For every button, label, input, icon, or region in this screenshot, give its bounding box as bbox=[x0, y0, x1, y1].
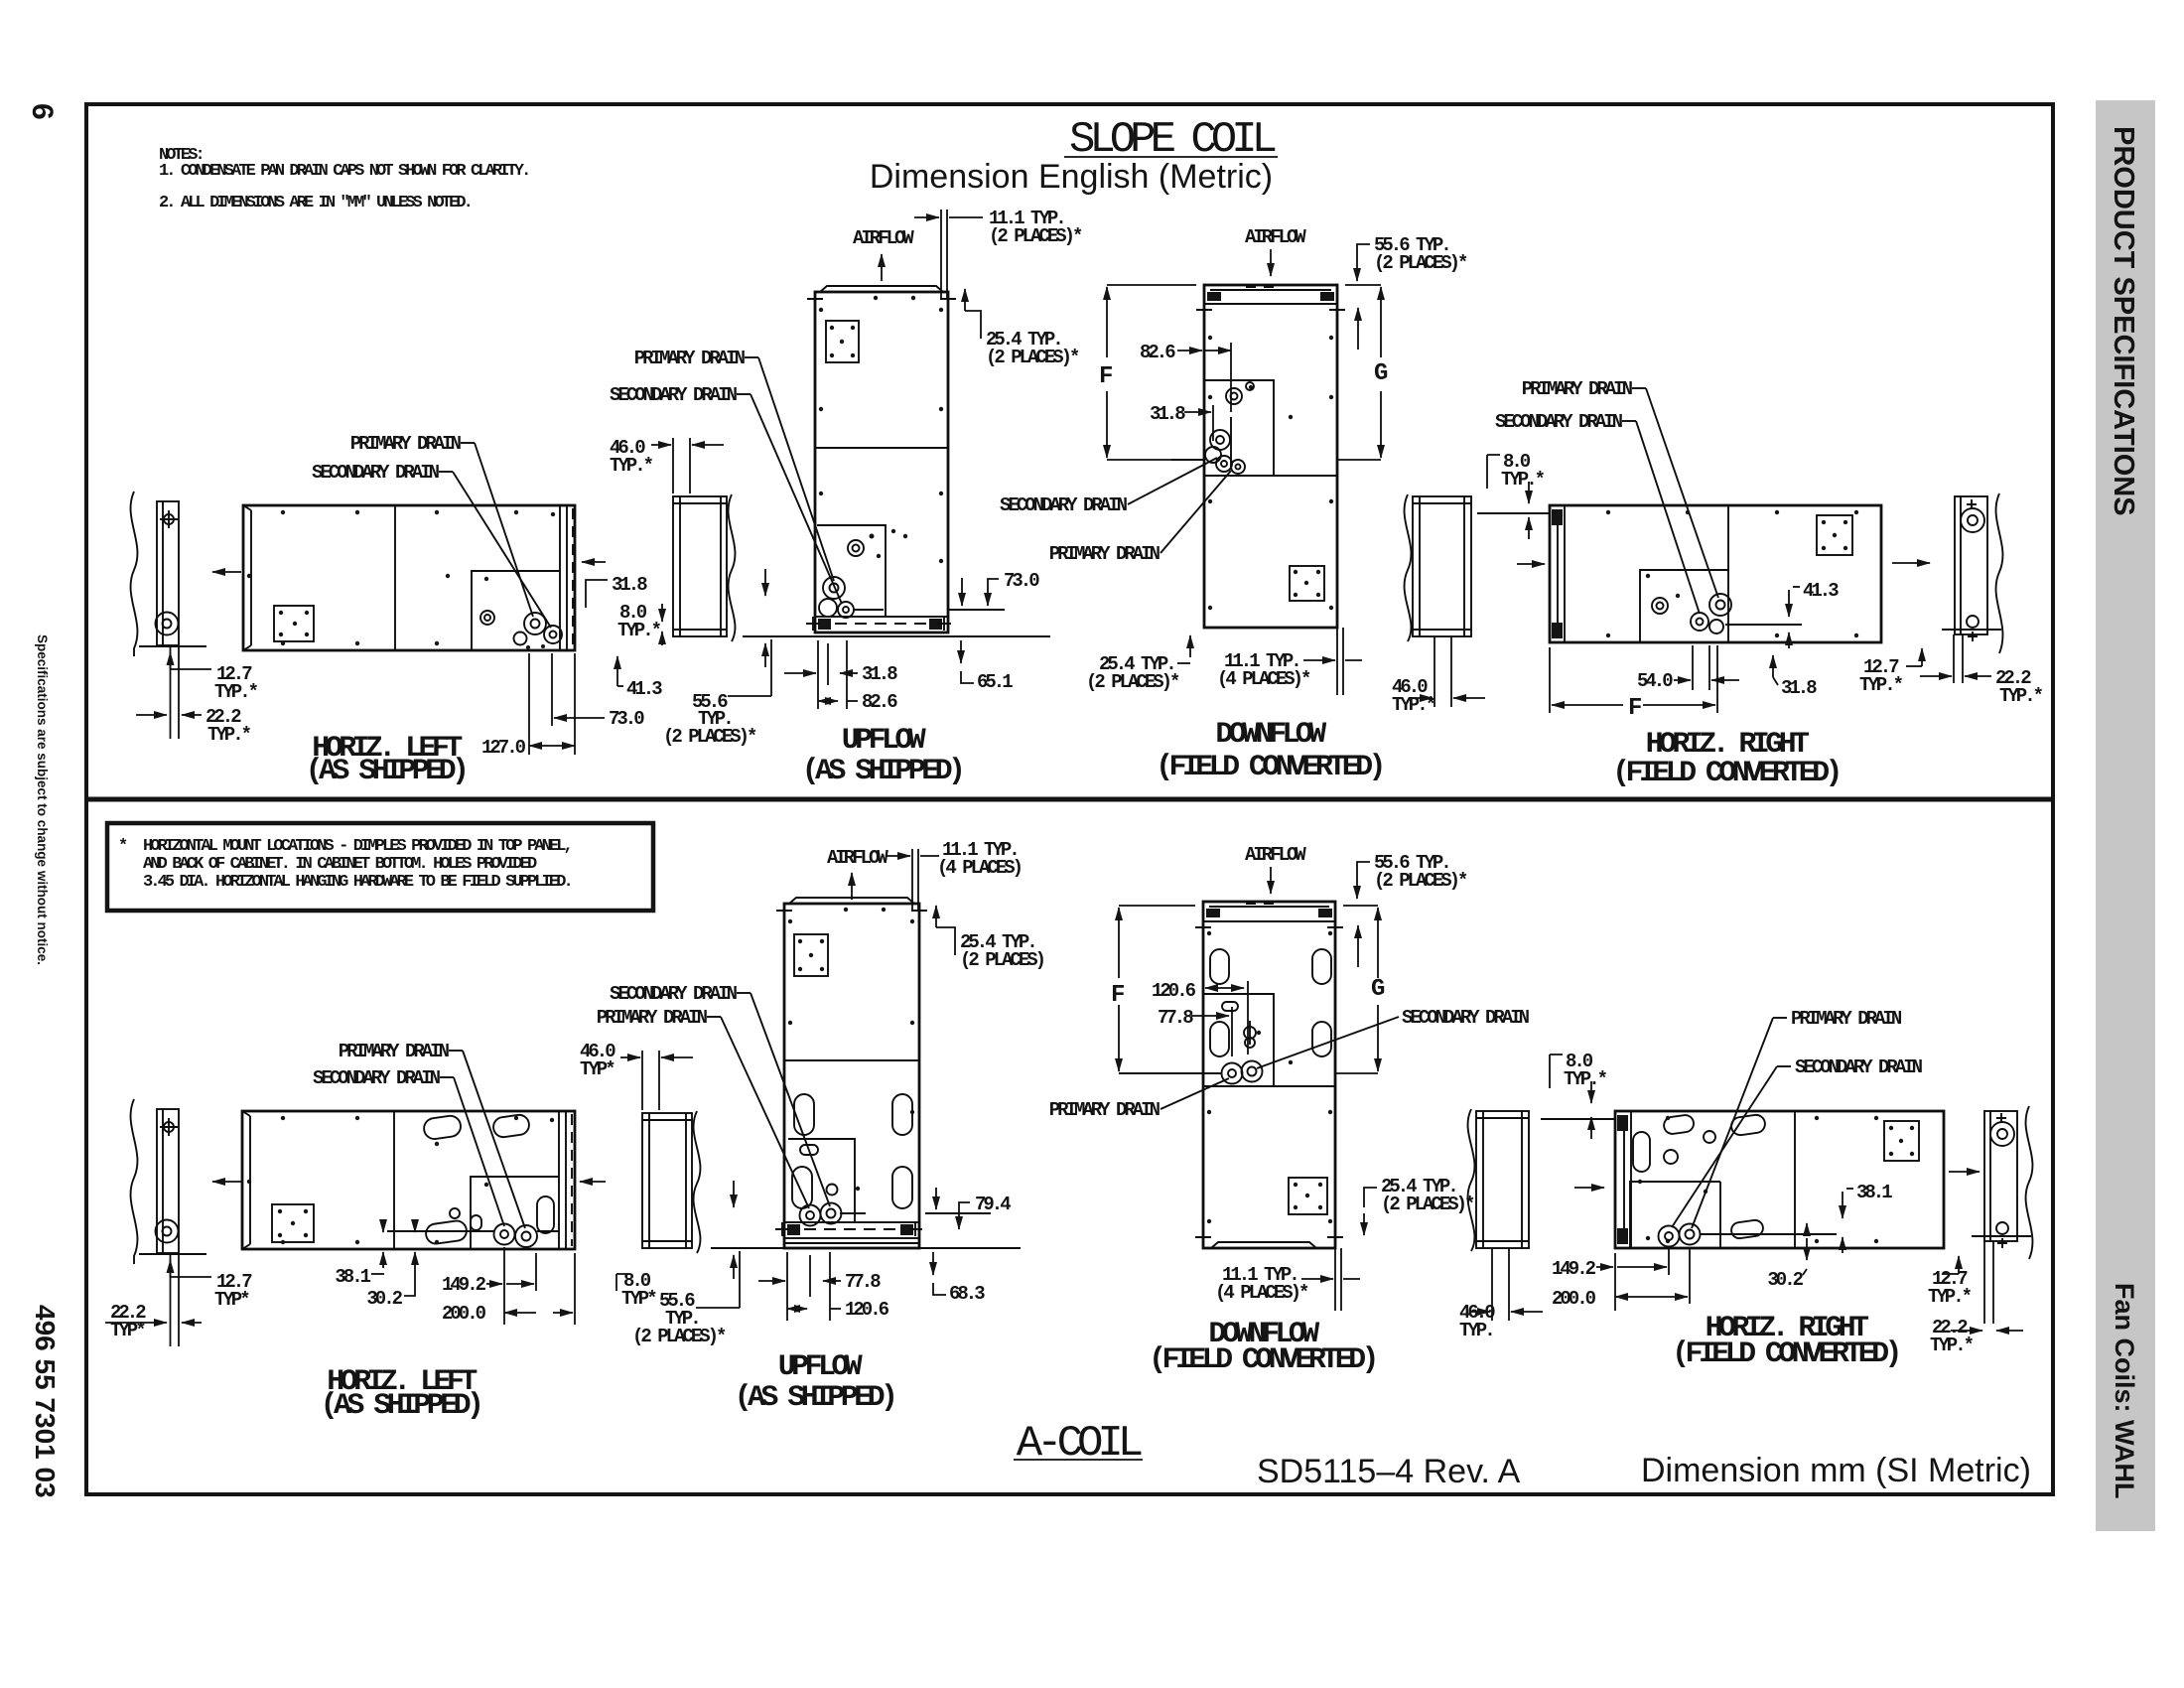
dim 55.6 TYP (2 PLACES) bbox=[1357, 862, 1370, 881]
junction box bbox=[272, 1204, 314, 1242]
break wavy bbox=[1405, 494, 1412, 641]
svg-text:TYP.*: TYP.* bbox=[1930, 1335, 1974, 1356]
cabinet outline bbox=[243, 505, 575, 650]
svg-text:TYP.*: TYP.* bbox=[617, 620, 661, 641]
split line bbox=[1203, 1085, 1335, 1087]
condensate pan (inverted) bbox=[1203, 994, 1274, 1086]
center divider bbox=[1794, 1111, 1796, 1248]
wall break wavy bbox=[1996, 493, 2003, 653]
dim 30.2 bbox=[414, 1252, 416, 1268]
drain fittings bbox=[1709, 594, 1731, 616]
svg-text:G: G bbox=[1371, 976, 1385, 1003]
dim 11.1 TYP ext lines bbox=[940, 210, 942, 298]
dim 22.2 TYP bbox=[105, 1322, 167, 1324]
svg-text:73.0: 73.0 bbox=[1004, 570, 1039, 592]
base rail bbox=[815, 617, 948, 633]
pan vent hole bbox=[480, 611, 494, 625]
cabinet screws bbox=[1207, 931, 1211, 935]
svg-text:(2 PLACES): (2 PLACES) bbox=[960, 949, 1044, 971]
svg-text:DOWNFLOW: DOWNFLOW bbox=[1215, 718, 1326, 752]
svg-text:(2 PLACES)*: (2 PLACES)* bbox=[1374, 870, 1467, 892]
cabinet outline bbox=[242, 1111, 575, 1249]
svg-text:(FIELD CONVERTED): (FIELD CONVERTED) bbox=[1672, 1337, 1898, 1371]
center divider bbox=[394, 505, 396, 650]
primary drain fitting bbox=[524, 613, 546, 634]
svg-text:SECONDARY DRAIN: SECONDARY DRAIN bbox=[1000, 494, 1128, 516]
dim 73.0 (right) bbox=[949, 609, 1005, 611]
condensate pan (upflow) bbox=[817, 525, 886, 617]
condensate pan bbox=[471, 1177, 559, 1249]
svg-text:(AS SHIPPED): (AS SHIPPED) bbox=[306, 755, 466, 788]
svg-text:TYP*: TYP* bbox=[214, 1289, 249, 1311]
washer grommet bbox=[156, 1220, 179, 1243]
side panel break wavy bbox=[694, 1111, 701, 1253]
top mounting screw bbox=[164, 1122, 174, 1132]
svg-text:82.6: 82.6 bbox=[862, 691, 897, 713]
svg-text:(AS SHIPPED): (AS SHIPPED) bbox=[735, 1381, 894, 1415]
dim 22.2 TYP bbox=[136, 714, 167, 716]
svg-text:41.3: 41.3 bbox=[1803, 580, 1839, 602]
svg-text:(4 PLACES)*: (4 PLACES)* bbox=[1215, 1282, 1308, 1304]
svg-text:1. CONDENSATE PAN DRAIN CAPS N: 1. CONDENSATE PAN DRAIN CAPS NOT SHOWN F… bbox=[159, 162, 528, 181]
dim 200.0 bbox=[574, 1253, 576, 1325]
svg-text:PRIMARY DRAIN: PRIMARY DRAIN bbox=[597, 1007, 708, 1029]
condensate pan bbox=[788, 1139, 855, 1222]
junction box bbox=[794, 934, 828, 976]
dim 38.1 bbox=[1842, 1192, 1843, 1218]
drain fittings bbox=[1659, 1226, 1680, 1247]
svg-text:PRIMARY DRAIN: PRIMARY DRAIN bbox=[1522, 378, 1633, 400]
side panel bbox=[1413, 496, 1471, 636]
dim 120.6 below bbox=[787, 1308, 807, 1310]
svg-text:31.8: 31.8 bbox=[612, 574, 647, 596]
dim 65.1 (right) bbox=[960, 640, 962, 663]
cabinet screws bbox=[788, 919, 792, 923]
svg-text:TYP.: TYP. bbox=[1459, 1320, 1493, 1341]
junction box bbox=[1817, 515, 1852, 555]
svg-text:SECONDARY DRAIN: SECONDARY DRAIN bbox=[313, 1067, 441, 1089]
top mounting screw bbox=[164, 514, 174, 524]
svg-text:(4 PLACES)*: (4 PLACES)* bbox=[1217, 668, 1310, 690]
secondary drain fitting bbox=[544, 626, 562, 643]
dim 25.4 TYP (2 PLACES) bbox=[1363, 1213, 1365, 1235]
side panel bbox=[1476, 1111, 1529, 1248]
dim 149.2 bbox=[503, 1247, 505, 1325]
small fitting above bbox=[1244, 1027, 1256, 1039]
drain fittings cluster bbox=[1210, 430, 1230, 450]
ceiling break wavy line bbox=[131, 492, 138, 656]
drain reference line bbox=[1119, 1072, 1221, 1074]
svg-text:SECONDARY DRAIN: SECONDARY DRAIN bbox=[312, 462, 440, 484]
svg-text:(AS SHIPPED): (AS SHIPPED) bbox=[802, 755, 962, 788]
junction box bbox=[274, 606, 314, 641]
dim 55.6 TYP (2 PLACES) bbox=[739, 1251, 741, 1308]
label PRIMARY DRAIN (dash at left) bbox=[1773, 1017, 1787, 1019]
dim 55.6 TYP (2 PLACES) bbox=[1357, 244, 1370, 263]
right wall panel bbox=[1955, 496, 1987, 634]
svg-text:SECONDARY DRAIN: SECONDARY DRAIN bbox=[1795, 1056, 1923, 1078]
svg-text:PRIMARY DRAIN: PRIMARY DRAIN bbox=[350, 433, 462, 455]
svg-text:Dimension English (Metric): Dimension English (Metric) bbox=[870, 158, 1273, 196]
cabinet screws bbox=[281, 1116, 285, 1120]
svg-text:*: * bbox=[118, 837, 127, 856]
drain fittings cluster bbox=[823, 577, 845, 599]
cabinet outline bbox=[1550, 505, 1881, 642]
condensate pan bbox=[1630, 1182, 1720, 1248]
dim 127.0 bbox=[528, 653, 530, 755]
svg-text:AND BACK OF CABINET. IN CABINE: AND BACK OF CABINET. IN CABINET BOTTOM. … bbox=[143, 855, 537, 874]
svg-text:AIRFLOW: AIRFLOW bbox=[853, 227, 914, 249]
svg-text:(2 PLACES)*: (2 PLACES)* bbox=[986, 347, 1079, 368]
dim 25.4 TYP (2 PLACES) bbox=[1189, 635, 1191, 657]
dim 149.2 bbox=[1668, 1249, 1670, 1275]
svg-text:2. ALL DIMENSIONS ARE IN "MM": 2. ALL DIMENSIONS ARE IN "MM" UNLESS NOT… bbox=[159, 194, 471, 212]
svg-text:3.45 DIA. HORIZONTAL HANGING H: 3.45 DIA. HORIZONTAL HANGING HARDWARE TO… bbox=[143, 873, 571, 892]
pan vent ring bbox=[848, 540, 864, 556]
svg-text:77.8: 77.8 bbox=[845, 1271, 881, 1293]
dim 11.1 TYP (4 PLACES) ext lines bbox=[911, 849, 913, 910]
pan vent ring bbox=[450, 1208, 460, 1218]
cabinet body bbox=[1203, 902, 1335, 1248]
svg-text:PRIMARY DRAIN: PRIMARY DRAIN bbox=[634, 348, 746, 369]
right entry arrow bbox=[1949, 1171, 1979, 1173]
cabinet body bbox=[1204, 285, 1337, 628]
svg-text:SECONDARY DRAIN: SECONDARY DRAIN bbox=[610, 384, 738, 406]
svg-text:SECONDARY DRAIN: SECONDARY DRAIN bbox=[610, 983, 738, 1005]
junction box bbox=[826, 321, 859, 362]
dim 38.1 bbox=[382, 1252, 384, 1268]
svg-text:PRIMARY DRAIN: PRIMARY DRAIN bbox=[1049, 1099, 1160, 1121]
svg-text:PRIMARY DRAIN: PRIMARY DRAIN bbox=[1049, 543, 1160, 565]
arrow into door edge bbox=[580, 1181, 606, 1183]
corner register marks bbox=[807, 291, 956, 307]
dim 82.6 below bbox=[818, 700, 838, 702]
corner register marks bbox=[1196, 302, 1345, 318]
svg-text:38.1: 38.1 bbox=[335, 1266, 370, 1288]
svg-text:73.0: 73.0 bbox=[609, 708, 644, 730]
dim F (bottom) bbox=[1549, 647, 1551, 713]
door edge bbox=[558, 1111, 560, 1249]
svg-text:30.2: 30.2 bbox=[1767, 1269, 1803, 1291]
drain reference line bbox=[1171, 459, 1204, 461]
junction box bbox=[1290, 566, 1324, 601]
dim 46.0 TYP ext lines bbox=[641, 1051, 643, 1110]
svg-text:PRODUCT SPECIFICATIONS: PRODUCT SPECIFICATIONS bbox=[2108, 126, 2139, 516]
ceiling break wavy line bbox=[131, 1099, 138, 1264]
split line bbox=[784, 1059, 919, 1061]
svg-text:127.0: 127.0 bbox=[481, 737, 526, 759]
svg-text:(2 PLACES)*: (2 PLACES)* bbox=[1086, 671, 1179, 693]
cabinet screws bbox=[819, 308, 823, 312]
right gray sidebar bbox=[2096, 100, 2155, 1531]
svg-text:TYP.*: TYP.* bbox=[207, 724, 251, 746]
svg-text:(2 PLACES)*: (2 PLACES)* bbox=[1374, 252, 1467, 274]
dim 31.8 bbox=[586, 580, 608, 608]
bottom edge detail bbox=[1211, 1242, 1316, 1248]
dim ext lines right bbox=[1983, 1241, 1985, 1324]
upflow cabinet body bbox=[815, 292, 948, 633]
oval in pan bbox=[537, 1196, 554, 1233]
hinge band left bbox=[1564, 505, 1566, 642]
svg-text:(2 PLACES)*: (2 PLACES)* bbox=[663, 726, 756, 748]
drain fittings bbox=[1222, 1063, 1243, 1084]
svg-text:AIRFLOW: AIRFLOW bbox=[827, 847, 888, 869]
main drawing frame bbox=[86, 104, 2053, 1494]
svg-text:AIRFLOW: AIRFLOW bbox=[1245, 226, 1306, 248]
dim 25.4 TYP bbox=[936, 927, 955, 955]
dim 46.0 TYP ext lines bbox=[672, 438, 674, 493]
svg-text:F: F bbox=[1099, 363, 1112, 390]
dim 68.3 (right) bbox=[932, 1252, 934, 1275]
airflow arrow (left) bbox=[212, 571, 241, 573]
door edge bbox=[559, 505, 561, 650]
drain fittings bbox=[800, 1205, 821, 1226]
right entry arrow bbox=[1892, 562, 1930, 564]
wall bottom line bbox=[1972, 1235, 2031, 1237]
dim 41.3 bbox=[616, 656, 618, 686]
washer grommet bbox=[156, 613, 179, 635]
dim 8.0 TYP arrows at panel base bbox=[764, 569, 766, 596]
airflow arrow (left) bbox=[212, 1181, 241, 1183]
svg-text:(4 PLACES): (4 PLACES) bbox=[937, 857, 1022, 879]
hanging wall panel bbox=[157, 501, 179, 645]
side panel (duct flange side view) bbox=[673, 496, 727, 636]
primary drain fitting bbox=[494, 1224, 515, 1245]
wall top washer bbox=[1990, 1122, 2014, 1146]
svg-text:TYP.*: TYP.* bbox=[1392, 694, 1435, 716]
dim 11.1 TYP (4 PLACES) bbox=[1336, 628, 1338, 695]
arrow into door edge bbox=[582, 561, 606, 563]
oval knockouts bbox=[1210, 949, 1229, 984]
svg-text:68.3: 68.3 bbox=[949, 1283, 985, 1305]
svg-text:TYP*: TYP* bbox=[110, 1320, 145, 1341]
svg-text:Fan Coils: WAHL: Fan Coils: WAHL bbox=[2110, 1283, 2139, 1499]
dim 12.7 TYP bbox=[1958, 1256, 1960, 1274]
dim 22.2 TYP bbox=[1920, 675, 1952, 677]
svg-text:TYP.*: TYP.* bbox=[1928, 1286, 1972, 1308]
cabinet screws bbox=[281, 510, 285, 514]
svg-text:UPFLOW: UPFLOW bbox=[778, 1350, 863, 1384]
cabinet outline bbox=[1615, 1111, 1944, 1248]
left entry arrow bbox=[1517, 563, 1545, 565]
blower/coil split line bbox=[815, 447, 948, 449]
dim 11.1 TYP (4 PLACES) bbox=[1334, 1248, 1336, 1311]
svg-text:SECONDARY DRAIN: SECONDARY DRAIN bbox=[1495, 411, 1623, 433]
split line bbox=[1204, 475, 1337, 477]
dim 12.7 TYP bbox=[1921, 648, 1923, 666]
dim 12.7 TYP bbox=[170, 1260, 172, 1277]
svg-text:31.8: 31.8 bbox=[862, 663, 897, 685]
floor line bbox=[711, 1247, 1021, 1249]
svg-text:31.8: 31.8 bbox=[1781, 677, 1817, 699]
dim extension lines bbox=[170, 646, 172, 739]
side panel bbox=[642, 1113, 692, 1248]
floor line bbox=[743, 635, 1050, 637]
svg-text:6: 6 bbox=[26, 103, 59, 120]
wall break wavy bbox=[2026, 1106, 2033, 1259]
top band (base rail up) bbox=[1204, 303, 1337, 305]
svg-text:PRIMARY DRAIN: PRIMARY DRAIN bbox=[1791, 1008, 1902, 1030]
svg-text:65.1: 65.1 bbox=[977, 671, 1013, 693]
dim F (left) bbox=[1107, 284, 1196, 286]
dim 200.0 bbox=[1689, 1249, 1691, 1304]
svg-text:TYP.*: TYP.* bbox=[214, 681, 258, 703]
dim G (right) bbox=[1343, 905, 1378, 907]
hinge band left bbox=[1630, 1111, 1632, 1248]
wall lower hole bbox=[1967, 616, 1979, 628]
break wavy bbox=[1468, 1109, 1475, 1251]
dim ext lines bbox=[170, 1254, 172, 1346]
svg-text:54.0: 54.0 bbox=[1637, 670, 1673, 692]
hanging wall panel bbox=[157, 1109, 179, 1253]
cabinet screws bbox=[1606, 510, 1610, 514]
svg-text:Specifications are subject to: Specifications are subject to change wit… bbox=[35, 634, 50, 965]
dim ext lines right bbox=[1953, 634, 1955, 683]
top cap flange bbox=[789, 898, 914, 904]
svg-text:120.6: 120.6 bbox=[1152, 980, 1196, 1002]
svg-text:A-COIL: A-COIL bbox=[1017, 1419, 1142, 1469]
svg-text:(2 PLACES)*: (2 PLACES)* bbox=[632, 1326, 726, 1347]
svg-text:F: F bbox=[1111, 982, 1124, 1009]
corner register marks bbox=[1195, 919, 1343, 935]
center divider bbox=[1727, 505, 1729, 642]
oval knockouts top bbox=[423, 1114, 463, 1140]
svg-text:79.4: 79.4 bbox=[975, 1194, 1011, 1215]
condensate pan bbox=[472, 571, 560, 650]
svg-text:(AS SHIPPED): (AS SHIPPED) bbox=[321, 1389, 480, 1423]
svg-text:TYP.*: TYP.* bbox=[1564, 1068, 1607, 1090]
svg-text:77.8: 77.8 bbox=[1158, 1007, 1193, 1029]
corner register marks bbox=[776, 903, 927, 918]
panel divider line bbox=[86, 797, 2053, 802]
dim 12.7 TYP bbox=[170, 652, 172, 669]
oval knockout bottom middle bbox=[425, 1219, 468, 1245]
upflow cabinet body bbox=[784, 904, 919, 1248]
svg-text:38.1: 38.1 bbox=[1856, 1182, 1892, 1203]
svg-text:UPFLOW: UPFLOW bbox=[842, 724, 926, 758]
svg-text:TYP.*: TYP.* bbox=[610, 455, 653, 477]
svg-text:149.2: 149.2 bbox=[442, 1274, 486, 1296]
svg-text:(2 PLACES)*: (2 PLACES)* bbox=[1381, 1194, 1474, 1215]
dim 54.0 bbox=[1692, 645, 1694, 690]
wall bottom line bbox=[1942, 629, 2001, 631]
svg-text:120.6: 120.6 bbox=[845, 1299, 889, 1321]
dim G (right) bbox=[1345, 284, 1381, 286]
svg-text:SECONDARY DRAIN: SECONDARY DRAIN bbox=[1402, 1007, 1530, 1029]
oval knockouts bbox=[794, 1094, 814, 1135]
dim 73.0 bbox=[551, 653, 553, 726]
svg-text:SD5115–4 Rev. A: SD5115–4 Rev. A bbox=[1257, 1453, 1521, 1490]
top band bbox=[1203, 920, 1335, 922]
pan vent ring bbox=[1226, 388, 1242, 404]
oval knockouts bbox=[1663, 1114, 1695, 1135]
dim 46.0 TYP (bottom) bbox=[1433, 636, 1435, 707]
svg-text:TYP*: TYP* bbox=[621, 1288, 656, 1310]
svg-text:30.2: 30.2 bbox=[366, 1288, 402, 1310]
dim 41.3 bbox=[1788, 590, 1790, 617]
side panel break wavy bbox=[729, 494, 736, 641]
left entry arrow bbox=[1574, 1187, 1604, 1189]
right wall panel bbox=[1984, 1111, 2017, 1241]
secondary drain fitting bbox=[515, 1225, 537, 1247]
wall lower hole bbox=[1996, 1222, 2008, 1234]
svg-text:200.0: 200.0 bbox=[1552, 1288, 1596, 1310]
drain reference line bbox=[387, 1230, 494, 1232]
svg-text:TYP*: TYP* bbox=[580, 1058, 614, 1080]
svg-text:TYP.*: TYP.* bbox=[1859, 674, 1903, 696]
svg-text:(FIELD CONVERTED): (FIELD CONVERTED) bbox=[1156, 751, 1382, 784]
dim 55.6 TYP (2 PLACES) bbox=[770, 639, 772, 696]
svg-text:149.2: 149.2 bbox=[1552, 1258, 1596, 1280]
svg-text:HORIZONTAL MOUNT LOCATIONS - D: HORIZONTAL MOUNT LOCATIONS - DIMPLES PRO… bbox=[143, 837, 571, 856]
svg-text:496 55 7301 03: 496 55 7301 03 bbox=[30, 1305, 61, 1498]
svg-text:200.0: 200.0 bbox=[442, 1303, 486, 1325]
svg-text:(FIELD CONVERTED): (FIELD CONVERTED) bbox=[1149, 1343, 1375, 1377]
svg-text:41.3: 41.3 bbox=[626, 678, 662, 700]
cabinet screws bbox=[1666, 1116, 1670, 1120]
pan vent ring bbox=[1652, 598, 1668, 614]
cabinet screws bbox=[1208, 336, 1212, 340]
svg-text:(2 PLACES)*: (2 PLACES)* bbox=[989, 225, 1082, 247]
svg-text:Dimension mm (SI Metric): Dimension mm (SI Metric) bbox=[1641, 1452, 2031, 1489]
svg-text:31.8: 31.8 bbox=[1150, 403, 1185, 425]
dim 77.8 below bbox=[786, 1252, 788, 1321]
wall top washer bbox=[1961, 508, 1984, 532]
dim 25.4 TYP bbox=[965, 311, 981, 339]
drain reference line bbox=[1700, 1233, 1837, 1235]
dim 79.4 (right) bbox=[925, 1212, 991, 1214]
center divider bbox=[393, 1111, 395, 1249]
dim 8.0 TYP text bbox=[616, 1274, 628, 1291]
svg-text:AIRFLOW: AIRFLOW bbox=[1245, 844, 1306, 866]
svg-text:(FIELD CONVERTED): (FIELD CONVERTED) bbox=[1612, 757, 1839, 790]
svg-text:PRIMARY DRAIN: PRIMARY DRAIN bbox=[339, 1041, 450, 1062]
dim 30.2 bbox=[1806, 1238, 1808, 1260]
top cap flange bbox=[820, 286, 943, 292]
label SECONDARY DRAIN (dash at left) bbox=[1777, 1065, 1791, 1067]
ceiling line bbox=[139, 645, 206, 647]
junction box bbox=[1289, 1178, 1327, 1214]
dim 22.2 TYP bbox=[1951, 1330, 1982, 1332]
dim 31.8 below bbox=[817, 640, 819, 709]
ceiling line bbox=[139, 1253, 206, 1255]
base rail bbox=[784, 1222, 919, 1238]
note box (A-COIL panel) bbox=[107, 823, 653, 911]
svg-text:TYP.*: TYP.* bbox=[1501, 469, 1545, 491]
dim 46.0 TYP (bottom) bbox=[1491, 1248, 1493, 1321]
svg-text:82.6: 82.6 bbox=[1140, 342, 1175, 363]
svg-text:TYP.*: TYP.* bbox=[1999, 685, 2043, 707]
dim 31.8 bbox=[1772, 655, 1774, 677]
svg-text:G: G bbox=[1374, 360, 1388, 387]
condensate pan bbox=[1640, 570, 1728, 642]
dim 8.0 TYP arrows at panel base bbox=[733, 1181, 735, 1207]
condensate pan (inverted) bbox=[1204, 380, 1274, 476]
junction box bbox=[1884, 1121, 1919, 1161]
svg-text:F: F bbox=[1628, 695, 1641, 722]
dim F (left) bbox=[1119, 905, 1195, 907]
